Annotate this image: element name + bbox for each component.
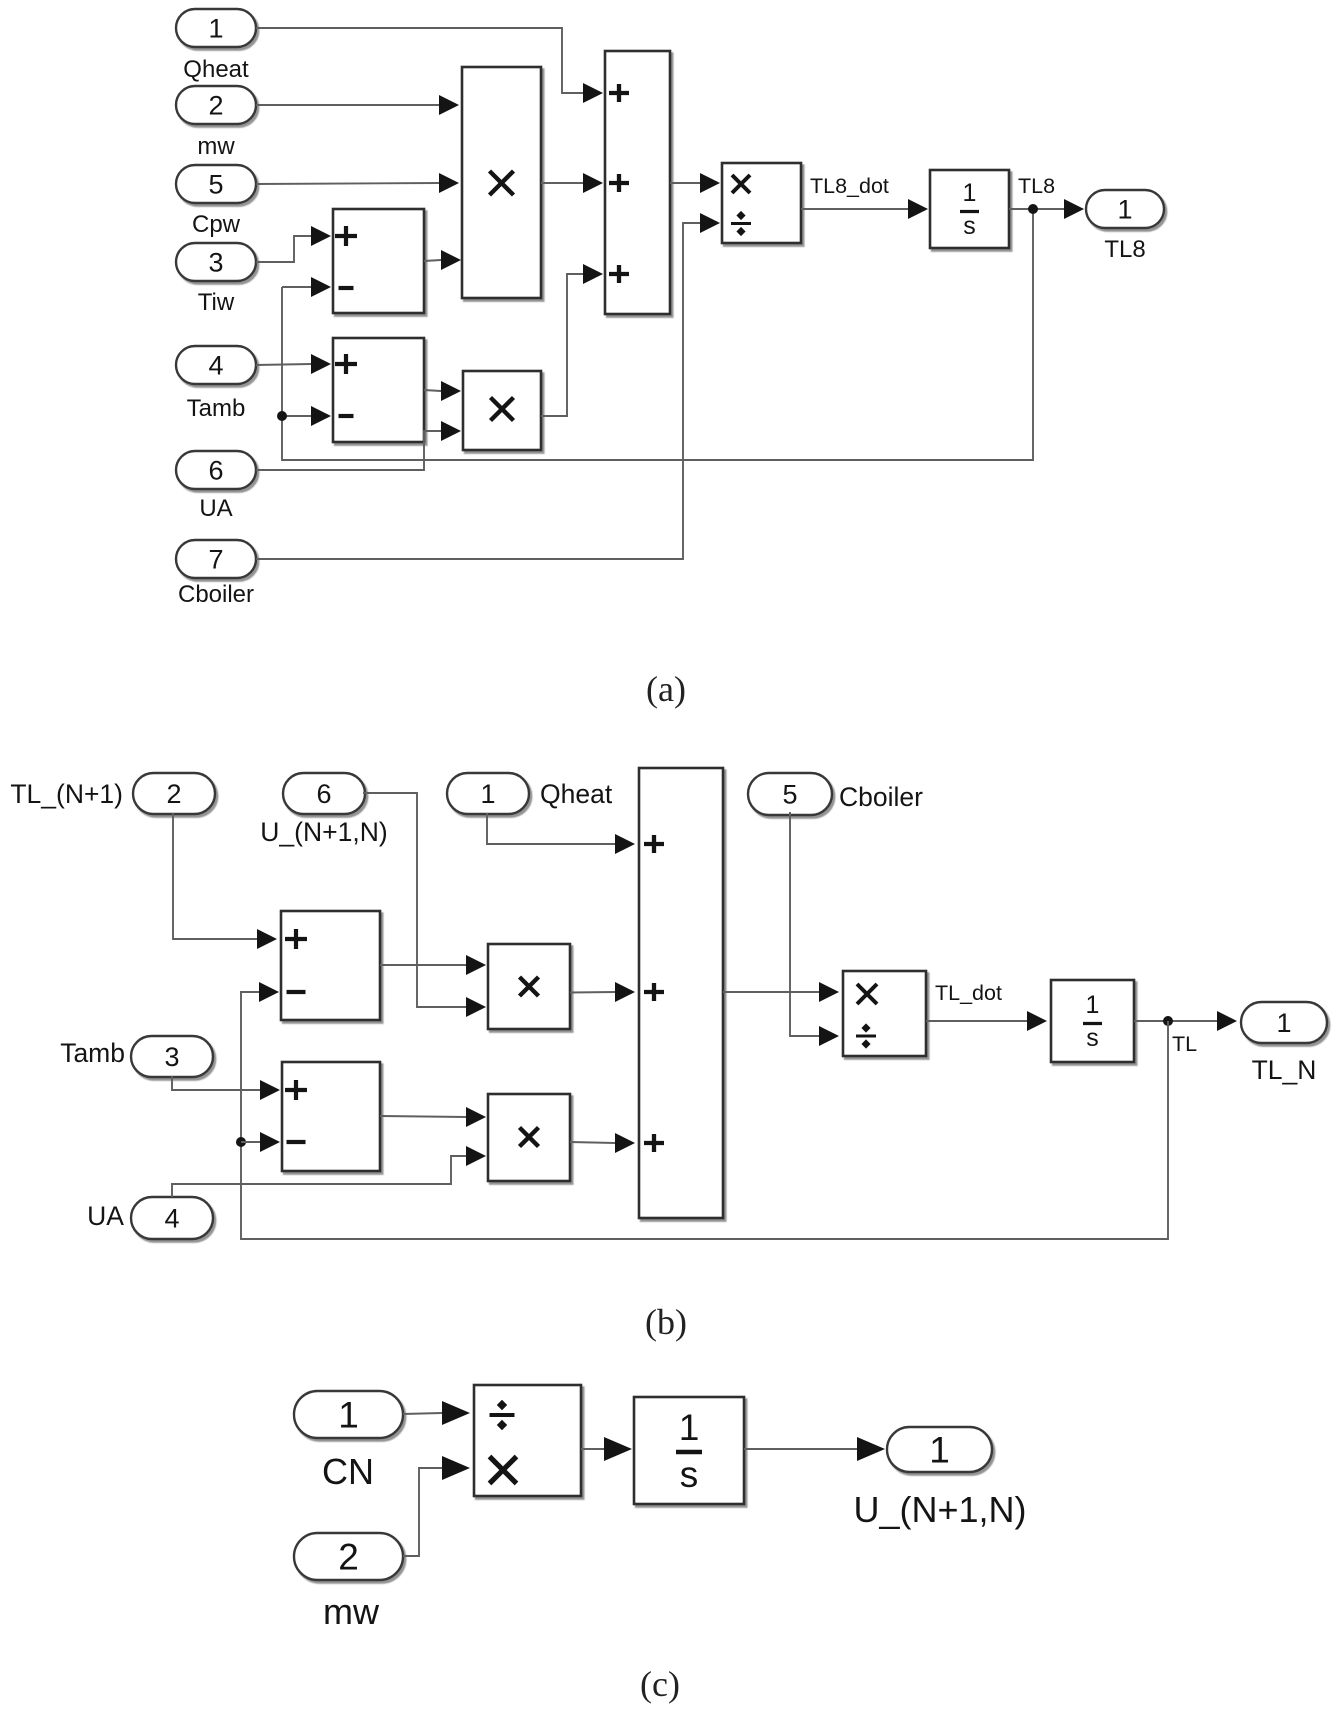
svg-text:4: 4 xyxy=(164,1204,179,1234)
svg-text:(c): (c) xyxy=(640,1664,680,1704)
svg-text:UA: UA xyxy=(87,1201,124,1231)
svg-text:s: s xyxy=(1086,1024,1099,1052)
svg-text:6: 6 xyxy=(208,456,223,486)
svg-text:(b): (b) xyxy=(645,1302,687,1342)
svg-text:TL_(N+1): TL_(N+1) xyxy=(10,779,123,809)
svg-text:1: 1 xyxy=(1117,195,1132,225)
svg-text:TL8: TL8 xyxy=(1104,236,1145,263)
svg-text:U_(N+1,N): U_(N+1,N) xyxy=(853,1489,1026,1530)
svg-text:Cboiler: Cboiler xyxy=(178,581,254,608)
svg-text:Qheat: Qheat xyxy=(540,779,613,809)
svg-text:5: 5 xyxy=(208,170,223,200)
svg-text:TL_dot: TL_dot xyxy=(935,981,1002,1005)
svg-text:Tiw: Tiw xyxy=(198,289,235,316)
svg-text:TL_N: TL_N xyxy=(1252,1055,1317,1085)
svg-text:2: 2 xyxy=(338,1537,359,1578)
svg-text:Qheat: Qheat xyxy=(183,56,249,83)
svg-text:3: 3 xyxy=(164,1042,179,1072)
svg-text:mw: mw xyxy=(323,1591,380,1632)
svg-text:6: 6 xyxy=(316,779,331,809)
svg-text:2: 2 xyxy=(208,91,223,121)
svg-text:1: 1 xyxy=(963,179,977,207)
svg-text:7: 7 xyxy=(208,545,223,575)
svg-text:4: 4 xyxy=(208,351,223,381)
svg-text:1: 1 xyxy=(679,1407,700,1448)
svg-text:1: 1 xyxy=(338,1395,359,1436)
svg-text:3: 3 xyxy=(208,248,223,278)
svg-text:TL: TL xyxy=(1172,1032,1197,1056)
svg-text:1: 1 xyxy=(480,779,495,809)
svg-text:s: s xyxy=(680,1454,699,1495)
svg-text:mw: mw xyxy=(197,133,235,160)
svg-text:1: 1 xyxy=(1086,991,1100,1019)
svg-text:2: 2 xyxy=(166,779,181,809)
svg-text:(a): (a) xyxy=(646,669,686,709)
svg-text:TL8: TL8 xyxy=(1018,174,1055,198)
svg-text:TL8_dot: TL8_dot xyxy=(810,174,889,198)
svg-text:UA: UA xyxy=(199,495,232,522)
svg-text:CN: CN xyxy=(322,1451,374,1492)
svg-text:Cpw: Cpw xyxy=(192,211,241,238)
svg-text:s: s xyxy=(963,212,976,240)
svg-text:Cboiler: Cboiler xyxy=(839,782,923,812)
svg-text:1: 1 xyxy=(208,14,223,44)
svg-text:Tamb: Tamb xyxy=(187,395,246,422)
svg-text:Tamb: Tamb xyxy=(60,1038,125,1068)
svg-text:1: 1 xyxy=(929,1430,950,1471)
svg-text:1: 1 xyxy=(1276,1008,1291,1038)
svg-text:U_(N+1,N): U_(N+1,N) xyxy=(260,817,387,847)
svg-text:5: 5 xyxy=(782,780,797,810)
